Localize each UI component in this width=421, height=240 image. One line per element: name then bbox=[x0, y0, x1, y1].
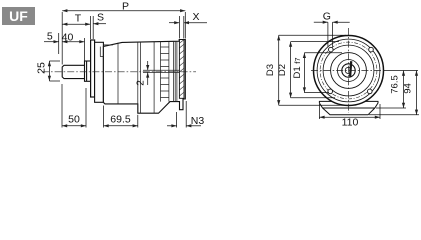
svg-text:D2: D2 bbox=[277, 64, 288, 76]
D1 f7 dimension bbox=[304, 53, 342, 93]
rear hatched plate bbox=[179, 40, 184, 99]
key hatch bar bbox=[349, 61, 352, 76]
body seam lines bbox=[103, 41, 176, 113]
crosshair centerlines bbox=[311, 28, 384, 113]
svg-text:25: 25 bbox=[36, 62, 48, 74]
X dimension (small, outside arrows) bbox=[169, 16, 207, 39]
shaft circle bbox=[342, 64, 355, 77]
hub bbox=[85, 61, 91, 81]
svg-text:D1 f7: D1 f7 bbox=[292, 57, 303, 78]
svg-text:G: G bbox=[323, 11, 331, 23]
svg-text:40: 40 bbox=[62, 31, 74, 43]
pilot plate bbox=[95, 42, 104, 102]
svg-text:S: S bbox=[97, 12, 104, 24]
mounting base bbox=[319, 101, 378, 114]
D2 dimension bbox=[291, 42, 339, 98]
svg-text:T: T bbox=[75, 13, 82, 25]
D3 dimension bbox=[279, 35, 346, 105]
seal circle bbox=[338, 60, 360, 82]
svg-text:94: 94 bbox=[403, 83, 414, 94]
hatch lines bbox=[179, 40, 184, 96]
bolt hole bottom-right bbox=[368, 89, 373, 94]
center circle bbox=[345, 67, 351, 73]
shaft bbox=[62, 65, 85, 78]
bolt hole top-left bbox=[329, 47, 334, 52]
69.5 dimension bbox=[104, 106, 138, 128]
T dimension bbox=[62, 16, 90, 39]
N3 dimension (small, outside arrows) bbox=[167, 101, 201, 128]
internal port line pair ("2" gap) bbox=[143, 70, 179, 72]
bolt hole bottom-left bbox=[328, 89, 333, 94]
body shoulder seam bbox=[103, 44, 113, 46]
flange plate bbox=[91, 40, 95, 97]
94 dimension bbox=[369, 71, 419, 115]
svg-text:D3: D3 bbox=[265, 64, 276, 76]
bolt hole top-right bbox=[369, 47, 374, 52]
P dimension bbox=[62, 11, 185, 65]
motor body bbox=[103, 40, 185, 114]
svg-text:5: 5 bbox=[47, 31, 53, 43]
svg-text:76.5: 76.5 bbox=[390, 75, 401, 94]
2 dimension (internal gap, outside arrows) bbox=[147, 61, 149, 85]
svg-text:UF: UF bbox=[9, 8, 28, 24]
svg-text:50: 50 bbox=[68, 114, 80, 126]
25 dimension (hub dia) bbox=[49, 61, 60, 81]
svg-text:110: 110 bbox=[342, 117, 359, 129]
svg-text:2: 2 bbox=[136, 80, 147, 86]
centerline (shaft axis) bbox=[42, 71, 196, 73]
G dimension (bolt hole dia) bbox=[314, 22, 350, 47]
76.5 dimension bbox=[376, 71, 418, 109]
5 dimension (small, outside arrows) bbox=[44, 33, 59, 54]
pilot circle bbox=[323, 45, 374, 96]
S dimension (small, outside arrows) bbox=[93, 16, 106, 39]
40 dimension bbox=[62, 38, 84, 61]
UF badge bbox=[2, 7, 35, 25]
rear cap circle bbox=[317, 39, 380, 102]
110 dimension bbox=[319, 104, 380, 119]
pilot notch bbox=[100, 47, 103, 57]
svg-text:69.5: 69.5 bbox=[110, 114, 131, 126]
svg-text:P: P bbox=[122, 1, 129, 13]
svg-text:N3: N3 bbox=[191, 115, 205, 127]
hub circle D1 bbox=[331, 53, 367, 89]
bolt ladder (rear section bolts) bbox=[161, 41, 169, 101]
svg-text:X: X bbox=[192, 11, 199, 23]
outer flange circle D3 bbox=[314, 36, 384, 106]
bolt circle (dashed) D2 bbox=[320, 42, 377, 99]
50 dimension bbox=[62, 84, 86, 128]
